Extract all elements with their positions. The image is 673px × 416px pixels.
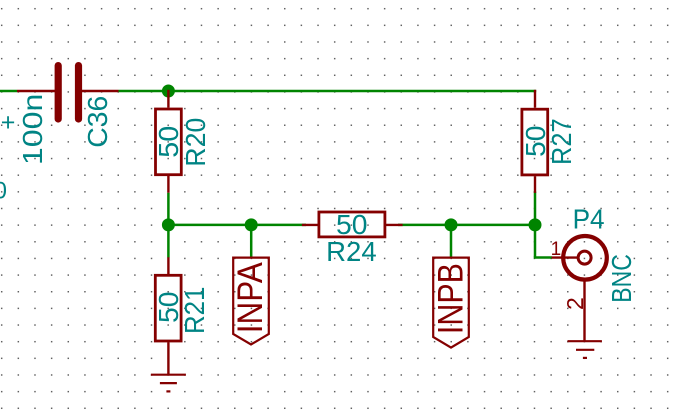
svg-text:100n: 100n bbox=[17, 94, 48, 166]
svg-text:0: 0 bbox=[0, 177, 7, 204]
svg-text:R27: R27 bbox=[546, 118, 577, 165]
svg-text:P4: P4 bbox=[573, 204, 605, 235]
svg-text:BNC: BNC bbox=[606, 254, 637, 303]
svg-text:INPB: INPB bbox=[431, 263, 471, 334]
svg-text:R21: R21 bbox=[179, 287, 210, 335]
svg-text:R24: R24 bbox=[326, 236, 377, 267]
svg-text:+: + bbox=[1, 108, 16, 136]
svg-text:INPA: INPA bbox=[230, 262, 270, 333]
svg-text:2: 2 bbox=[562, 297, 588, 310]
svg-text:C36: C36 bbox=[82, 96, 113, 148]
svg-text:R20: R20 bbox=[180, 118, 211, 167]
svg-text:1: 1 bbox=[551, 239, 562, 260]
